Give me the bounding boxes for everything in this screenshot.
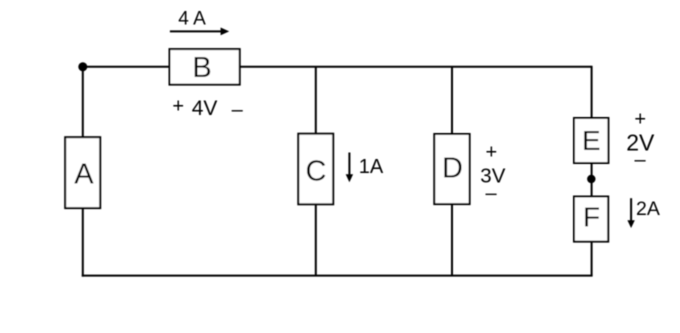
wire D branch lower [451, 204, 453, 276]
wire C branch lower [315, 204, 317, 275]
element D box [434, 134, 469, 204]
svg-text:2A: 2A [636, 198, 660, 220]
wire C branch upper [315, 67, 317, 134]
wire top: B to top-right corner [240, 66, 592, 68]
svg-text:–: – [232, 99, 244, 121]
svg-text:A: A [74, 158, 94, 190]
element E box [574, 118, 608, 163]
element C box [298, 134, 333, 205]
svg-text:C: C [306, 155, 327, 187]
element B box [170, 49, 240, 85]
svg-text:+: + [485, 142, 497, 164]
element A box [65, 137, 100, 208]
node dot left [78, 62, 87, 71]
svg-text:4V: 4V [192, 97, 218, 120]
svg-text:+: + [172, 96, 184, 118]
svg-text:4 A: 4 A [178, 9, 206, 30]
svg-text:D: D [442, 153, 463, 185]
wire F to bottom [591, 242, 593, 276]
current arrow 2A (down, right of F) [627, 198, 634, 228]
current arrow 4A (rightward above B) [170, 28, 229, 36]
wire D branch upper [451, 67, 453, 134]
svg-text:1A: 1A [359, 156, 384, 178]
node dot between E and F [587, 175, 595, 183]
wire bottom [82, 275, 593, 277]
svg-text:+: + [634, 108, 646, 130]
wire top: node to B [83, 66, 170, 68]
wire left vertical upper [82, 67, 84, 137]
wire E-F link [591, 163, 593, 197]
current arrow 1A (down, right of C) [346, 153, 353, 183]
wire right vertical upper [591, 66, 593, 118]
svg-text:–: – [486, 183, 498, 205]
svg-text:F: F [583, 202, 600, 233]
element F box [574, 197, 608, 242]
wire left vertical lower [82, 208, 84, 277]
svg-text:–: – [634, 149, 646, 171]
svg-text:B: B [192, 52, 211, 84]
svg-text:E: E [582, 125, 601, 156]
